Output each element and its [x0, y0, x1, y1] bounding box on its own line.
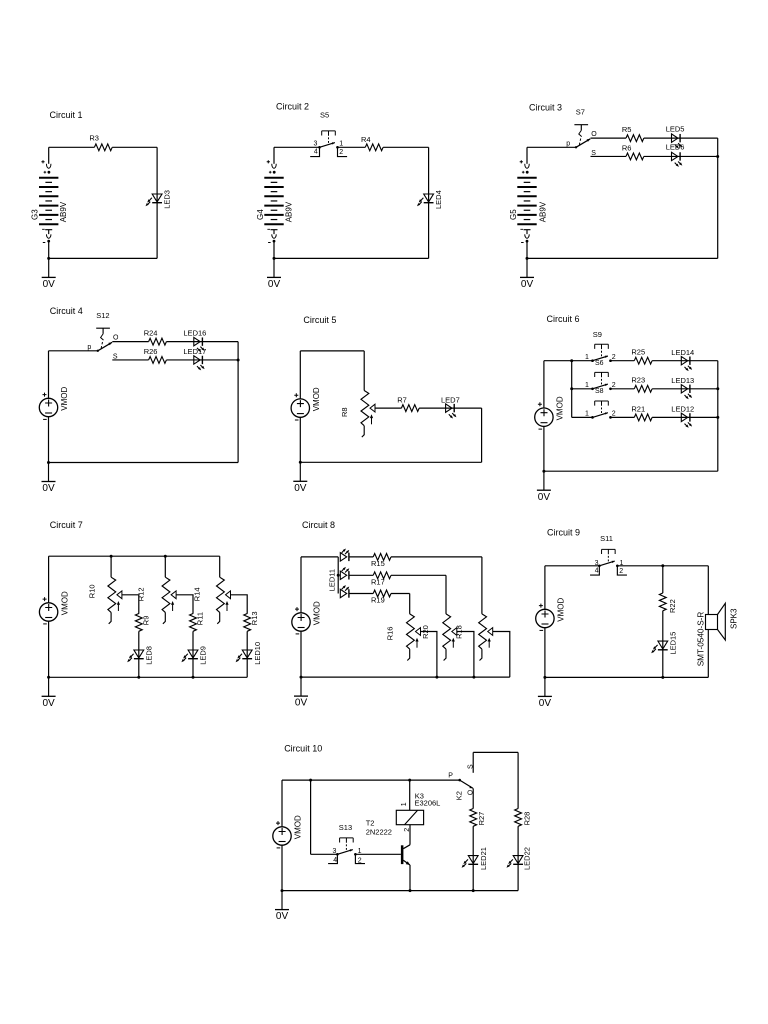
svg-text:p: p: [566, 141, 570, 148]
wire row2 drop: [445, 575, 447, 614]
wire R28 top lead: [517, 752, 519, 808]
wire source top lead: [281, 780, 283, 827]
svg-text:Circuit 6: Circuit 6: [547, 314, 580, 324]
wire collector: [409, 825, 411, 845]
wire bottom: [49, 462, 239, 464]
wire row2 right: [391, 574, 446, 576]
resistor R24: [149, 338, 167, 345]
svg-text:Circuit 8: Circuit 8: [302, 520, 335, 530]
wire top horizontal: [300, 350, 364, 352]
wire battery top lead: [273, 147, 275, 164]
wire row3 left: [572, 416, 593, 418]
wire R22 branch lower: [662, 611, 664, 678]
svg-text:S7: S7: [576, 108, 585, 117]
relay coil K3 E3206L: [396, 810, 423, 824]
svg-text:R16: R16: [385, 627, 394, 641]
LED LED3: [146, 194, 163, 206]
wire row3 mid: [611, 416, 635, 418]
junction: [472, 676, 475, 679]
switch S5: [318, 131, 339, 149]
switch S13: [336, 838, 357, 856]
svg-text:R23: R23: [631, 376, 645, 385]
resistor R27: [470, 809, 477, 827]
svg-text:R19: R19: [371, 596, 385, 605]
junction: [716, 387, 719, 390]
wire top branch right: [166, 341, 238, 343]
svg-text:4: 4: [314, 149, 318, 156]
resistor R25: [634, 357, 652, 364]
junction: [570, 359, 573, 362]
svg-text:S5: S5: [320, 110, 329, 119]
switch row2: [591, 372, 612, 390]
LED LED22: [506, 856, 523, 868]
wire battery bottom lead: [273, 241, 275, 258]
svg-text:R15: R15: [371, 559, 385, 568]
svg-text:2: 2: [612, 382, 616, 389]
resistor R28: [515, 809, 522, 827]
resistor R15: [373, 554, 391, 561]
resistor R19: [373, 590, 391, 597]
source VMOD: [39, 393, 57, 420]
wire top rail: [282, 779, 460, 781]
potentiometer R10: [108, 577, 122, 624]
resistor R21: [634, 414, 652, 421]
svg-text:VMOD: VMOD: [556, 396, 565, 420]
junction: [110, 555, 113, 558]
wire speaker bottom lead: [707, 630, 709, 678]
ground 0V: [537, 471, 551, 503]
junction: [570, 387, 573, 390]
wire right vertical: [717, 138, 719, 258]
svg-text:P: P: [448, 773, 453, 780]
svg-text:LED9: LED9: [199, 646, 208, 665]
svg-text:R22: R22: [668, 599, 677, 613]
wire top right segment: [112, 146, 157, 148]
wire K2 O contact down: [472, 788, 474, 808]
potentiometer R20: [443, 614, 457, 661]
svg-text:Circuit 9: Circuit 9: [547, 528, 580, 538]
wire R22 branch upper: [662, 566, 664, 593]
wire bottom: [544, 470, 718, 472]
svg-text:S6: S6: [595, 360, 604, 367]
svg-text:2: 2: [404, 828, 411, 832]
svg-text:S9: S9: [593, 330, 602, 339]
wire right vertical: [481, 408, 483, 462]
wire bottom branch right: [644, 155, 718, 157]
svg-text:LED12: LED12: [671, 405, 694, 414]
wire row1 drop: [481, 557, 483, 614]
wire row3 left: [349, 593, 373, 595]
LED stack row3: [340, 585, 349, 598]
wire top horizontal: [527, 146, 576, 148]
wire top left: [274, 146, 320, 148]
wire row2 left: [349, 574, 373, 576]
svg-text:G3: G3: [31, 209, 40, 220]
svg-text:2: 2: [358, 857, 362, 864]
wire row1 right: [391, 556, 482, 558]
resistor R3: [94, 144, 112, 151]
svg-text:p: p: [87, 344, 91, 351]
wire right vertical: [428, 147, 430, 258]
wire bottom: [49, 257, 157, 259]
wire source bottom lead: [543, 426, 545, 471]
wire bottom: [300, 461, 481, 463]
svg-text:Circuit 1: Circuit 1: [50, 110, 83, 120]
potentiometer R18: [479, 614, 493, 661]
wire wiper1: [122, 595, 139, 614]
junction: [309, 779, 312, 782]
svg-text:LED3: LED3: [163, 190, 172, 209]
wire K2 S contact up: [472, 752, 474, 772]
svg-text:R4: R4: [361, 135, 371, 144]
svg-text:O: O: [113, 334, 119, 341]
svg-text:T2: T2: [366, 819, 375, 828]
wire base lead: [355, 853, 401, 855]
LED LED13: [681, 385, 692, 400]
ground 0V: [42, 463, 56, 495]
wire R7 to right: [419, 407, 482, 409]
wire source bottom lead: [544, 628, 546, 678]
wire row2 mid: [611, 388, 635, 390]
LED LED4: [417, 194, 434, 206]
wire pot top lead: [363, 351, 365, 391]
svg-text:Circuit 4: Circuit 4: [50, 306, 83, 316]
junction: [661, 676, 664, 679]
svg-text:G4: G4: [256, 209, 265, 220]
wire pot2 top lead: [164, 556, 166, 577]
source VMOD: [291, 393, 309, 420]
LED stack row1: [340, 549, 349, 562]
LED LED9: [181, 650, 198, 662]
svg-text:3: 3: [333, 848, 337, 855]
wire R27 lower: [472, 826, 474, 890]
junction: [526, 257, 529, 260]
wire bottom rail: [282, 890, 518, 892]
svg-text:LED4: LED4: [434, 190, 443, 209]
transistor T2 2N2222: [401, 845, 410, 865]
wire speaker top lead: [707, 566, 709, 615]
wire row1 mid: [611, 360, 635, 362]
resistor R9: [135, 614, 142, 632]
wire right vertical: [237, 342, 239, 463]
LED LED16: [194, 337, 205, 352]
svg-text:O: O: [591, 131, 597, 138]
LED LED6: [672, 152, 683, 167]
switch row1: [591, 344, 612, 362]
wire row1 left: [544, 360, 593, 362]
LED LED14: [681, 357, 692, 372]
junction: [137, 676, 140, 679]
wire pot1 top lead: [110, 556, 112, 577]
LED stack row2: [340, 567, 349, 580]
ground 0V: [267, 258, 281, 290]
svg-text:S8: S8: [595, 388, 604, 395]
wire battery bottom lead: [526, 241, 528, 258]
svg-text:AB9V: AB9V: [59, 201, 68, 222]
wire bottom: [527, 257, 718, 259]
wire row1 left: [349, 556, 373, 558]
speaker SPK3: [706, 603, 726, 640]
wire top branch left: [112, 341, 148, 343]
svg-text:LED14: LED14: [671, 348, 694, 357]
resistor R5: [626, 135, 644, 142]
wire source top lead: [543, 361, 545, 408]
wire bottom branch left: [591, 155, 627, 157]
potentiometer R16: [407, 614, 421, 661]
wire wiper3: [493, 632, 510, 678]
wire emitter: [409, 865, 411, 891]
wire top right rail: [473, 751, 518, 753]
resistor R11: [190, 614, 197, 632]
svg-text:LED8: LED8: [145, 646, 154, 665]
junction: [273, 257, 276, 260]
svg-text:G5: G5: [509, 209, 518, 220]
wire row3 drop: [409, 594, 411, 614]
svg-text:Circuit 5: Circuit 5: [303, 315, 336, 325]
svg-text:LED15: LED15: [668, 632, 677, 655]
wire bottom branch left: [112, 359, 148, 361]
svg-text:LED22: LED22: [523, 847, 532, 870]
svg-text:LED11: LED11: [327, 569, 336, 591]
wire wiper to R7: [375, 407, 402, 409]
junction: [716, 416, 719, 419]
LED LED21: [462, 856, 479, 868]
potentiometer R8: [361, 391, 375, 438]
junction: [435, 676, 438, 679]
svg-text:VMOD: VMOD: [313, 601, 322, 625]
LED LED15: [651, 641, 668, 653]
svg-text:1: 1: [401, 802, 408, 806]
svg-text:R17: R17: [371, 577, 385, 586]
resistor R22: [659, 593, 666, 611]
LED LED7: [446, 404, 457, 419]
source VMOD: [535, 402, 553, 429]
switch S5 feet: [310, 147, 347, 156]
wire row2 right: [652, 388, 718, 390]
wire battery top lead: [48, 147, 50, 164]
svg-text:R5: R5: [622, 125, 632, 134]
wire top left: [545, 565, 600, 567]
wire R28 lower: [517, 826, 519, 890]
svg-text:R7: R7: [397, 396, 407, 405]
switch S7: [574, 125, 590, 149]
wire source top lead: [299, 351, 301, 399]
switch row3: [591, 401, 612, 419]
wire top horizontal: [49, 350, 98, 352]
potentiometer R14: [217, 577, 231, 624]
junction: [409, 889, 412, 892]
wire row1 right: [652, 360, 718, 362]
wire mid top: [338, 146, 366, 148]
wire wiper2: [176, 595, 193, 614]
svg-text:VMOD: VMOD: [60, 386, 69, 410]
junction: [192, 676, 195, 679]
LED LED8: [127, 650, 144, 662]
svg-text:LED21: LED21: [479, 847, 488, 870]
wire wiper1: [421, 632, 437, 678]
wire bus vertical: [571, 361, 573, 418]
svg-text:SMT-0540-S-R: SMT-0540-S-R: [696, 612, 705, 667]
svg-text:S12: S12: [96, 311, 109, 320]
wire bottom rail: [49, 676, 248, 678]
junction: [408, 779, 411, 782]
wire battery top lead: [526, 147, 528, 164]
svg-text:AB9V: AB9V: [284, 201, 293, 222]
resistor R6: [626, 153, 644, 160]
wire source top lead: [48, 351, 50, 399]
svg-text:2: 2: [619, 568, 623, 575]
wire bottom branch right: [166, 359, 238, 361]
wire branch1 lower: [138, 631, 140, 677]
battery G3 AB9V: [39, 160, 58, 242]
svg-text:2: 2: [612, 354, 616, 361]
svg-text:2: 2: [612, 411, 616, 418]
svg-text:VMOD: VMOD: [60, 591, 69, 615]
svg-text:1: 1: [339, 141, 343, 148]
wire branch2 lower: [192, 631, 194, 677]
svg-text:SPK3: SPK3: [730, 608, 739, 629]
ground 0V: [275, 891, 289, 923]
wire LED bus: [337, 557, 339, 594]
svg-text:R25: R25: [631, 348, 645, 357]
svg-text:S11: S11: [600, 534, 613, 543]
svg-text:4: 4: [595, 568, 599, 575]
potentiometer R12: [162, 577, 176, 624]
ground 0V: [293, 462, 307, 494]
wire S13 branch drop: [310, 780, 312, 854]
wire bottom: [274, 257, 429, 259]
junction: [47, 676, 50, 679]
resistor R7: [401, 405, 419, 412]
resistor R4: [365, 144, 383, 151]
wire row2 left: [572, 388, 593, 390]
svg-text:2N2222: 2N2222: [366, 828, 392, 837]
svg-text:VMOD: VMOD: [312, 387, 321, 411]
wire pot3 top lead: [219, 556, 221, 577]
ground 0V: [294, 677, 308, 709]
svg-text:K2: K2: [454, 791, 463, 800]
source VMOD: [536, 604, 554, 631]
svg-text:R21: R21: [631, 404, 645, 413]
source VMOD: [273, 821, 291, 848]
svg-text:E3206L: E3206L: [415, 798, 441, 807]
wire source bottom lead: [48, 621, 50, 677]
LED LED12: [681, 413, 692, 428]
svg-text:LED17: LED17: [183, 347, 206, 356]
LED LED17: [194, 356, 205, 371]
svg-text:R11: R11: [196, 612, 205, 625]
svg-text:LED7: LED7: [441, 396, 460, 405]
svg-text:4: 4: [333, 857, 337, 864]
wire row3 right: [652, 416, 718, 418]
wire source top lead: [544, 566, 546, 610]
battery G5 AB9V: [517, 160, 536, 242]
svg-text:Circuit 7: Circuit 7: [50, 520, 83, 530]
wire right vertical: [717, 361, 719, 472]
svg-text:R14: R14: [192, 587, 201, 601]
ground 0V: [42, 258, 56, 290]
wire top rail: [49, 555, 220, 557]
svg-text:R8: R8: [340, 407, 349, 417]
switch S12: [96, 328, 112, 352]
svg-text:Circuit 10: Circuit 10: [284, 743, 322, 753]
wire source bottom lead: [281, 845, 283, 890]
junction: [164, 555, 167, 558]
svg-text:R3: R3: [89, 134, 99, 143]
junction: [716, 155, 719, 158]
wire top branch right: [644, 137, 718, 139]
ground 0V: [520, 258, 534, 290]
svg-text:LED6: LED6: [666, 143, 685, 152]
svg-text:R10: R10: [88, 584, 97, 598]
svg-text:1: 1: [585, 382, 589, 389]
wire branch3 lower: [246, 631, 248, 677]
junction: [300, 676, 303, 679]
resistor R26: [149, 357, 167, 364]
wire top branch left: [591, 137, 627, 139]
svg-text:R26: R26: [144, 347, 158, 356]
wire source bottom lead: [300, 631, 302, 677]
svg-text:3: 3: [595, 560, 599, 567]
junction: [661, 564, 664, 567]
wire source bottom lead: [48, 417, 50, 463]
wire top right: [383, 146, 429, 148]
wire top right: [617, 565, 708, 567]
junction: [47, 461, 50, 464]
svg-text:R6: R6: [622, 143, 632, 152]
svg-text:3: 3: [314, 141, 318, 148]
ground 0V: [42, 677, 56, 709]
wire relay coil feed: [409, 780, 411, 810]
battery G4 AB9V: [264, 160, 283, 242]
junction: [472, 889, 475, 892]
svg-text:LED5: LED5: [666, 124, 685, 133]
svg-text:R9: R9: [142, 616, 151, 626]
wire wiper3: [231, 595, 248, 614]
svg-text:Circuit 2: Circuit 2: [276, 101, 309, 111]
source VMOD: [292, 607, 310, 634]
switch S13 feet: [328, 854, 365, 863]
wire wiper2: [457, 632, 474, 678]
svg-text:Circuit 3: Circuit 3: [529, 102, 562, 112]
svg-text:1: 1: [585, 411, 589, 418]
wire battery bottom lead: [48, 241, 50, 258]
switch S11 feet: [590, 566, 627, 575]
wire source top lead: [300, 557, 302, 613]
LED LED10: [236, 650, 253, 662]
wire bottom rail: [545, 676, 708, 678]
junction: [299, 461, 302, 464]
switch S11: [598, 549, 619, 567]
junction: [237, 358, 240, 361]
svg-text:S13: S13: [339, 823, 352, 832]
svg-text:LED16: LED16: [183, 329, 206, 338]
svg-text:R13: R13: [250, 611, 259, 625]
junction: [543, 676, 546, 679]
junction: [542, 470, 545, 473]
junction: [281, 889, 284, 892]
source VMOD: [39, 597, 57, 624]
wire right vertical: [156, 147, 158, 258]
svg-text:LED10: LED10: [253, 642, 262, 665]
svg-text:R28: R28: [523, 812, 532, 826]
wire source top lead: [48, 556, 50, 603]
svg-text:AB9V: AB9V: [538, 201, 547, 222]
svg-text:1: 1: [585, 354, 589, 361]
svg-text:R27: R27: [477, 812, 486, 826]
resistor R17: [373, 572, 391, 579]
wire top horizontal: [301, 556, 338, 558]
